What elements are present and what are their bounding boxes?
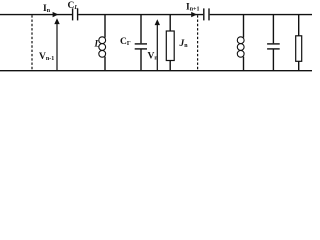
wire inductor L branch bottom — [104, 57, 106, 71]
wire top rail segment 2 — [78, 14, 203, 16]
node Vn-1 arrow line — [56, 22, 58, 71]
wire inductor next-section branch bottom — [243, 57, 245, 71]
wire impedance Jn stub top — [169, 15, 171, 31]
wire impedance next-section stub top — [298, 15, 300, 36]
wire inductor next-section branch top — [243, 15, 245, 38]
wire capacitor CG branch bottom — [140, 50, 142, 71]
wire capacitor CG branch top — [140, 15, 142, 44]
wire dashed section boundary left — [31, 15, 33, 70]
wire impedance next-section stub bottom — [298, 61, 300, 70]
impedance box next-section — [296, 36, 302, 62]
capacitor next-section bottom plate — [267, 48, 280, 50]
capacitor C next-section left plate — [203, 8, 205, 20]
wire bottom rail — [0, 70, 312, 72]
arrow current In+1 on top rail — [191, 12, 197, 17]
capacitor C next-section right plate — [208, 8, 210, 20]
capacitor CL right plate — [77, 8, 79, 20]
inductor next-section coil loops — [237, 37, 244, 44]
arrow voltage Vn up — [155, 19, 160, 25]
capacitor next-section top plate — [267, 43, 280, 45]
wire top rail segment 1 — [0, 14, 72, 16]
arrow voltage Vn-1 up — [54, 18, 59, 24]
wire top rail segment 3 — [210, 14, 312, 16]
arrow current In on top rail — [53, 12, 59, 17]
inductor L coil loops — [99, 37, 106, 44]
capacitor CG top plate — [135, 43, 147, 45]
wire impedance Jn stub bottom — [169, 61, 171, 71]
capacitor CL left plate — [72, 8, 74, 20]
wire inductor L branch top — [104, 15, 106, 38]
node Vn arrow line — [156, 23, 158, 71]
impedance box Jn — [166, 31, 174, 61]
svg-text:L: L — [94, 39, 101, 49]
wire capacitor next-section branch bottom — [272, 50, 274, 71]
wire dashed section boundary right — [197, 15, 199, 70]
wire capacitor next-section branch top — [272, 15, 274, 44]
capacitor CG bottom plate — [135, 48, 147, 50]
